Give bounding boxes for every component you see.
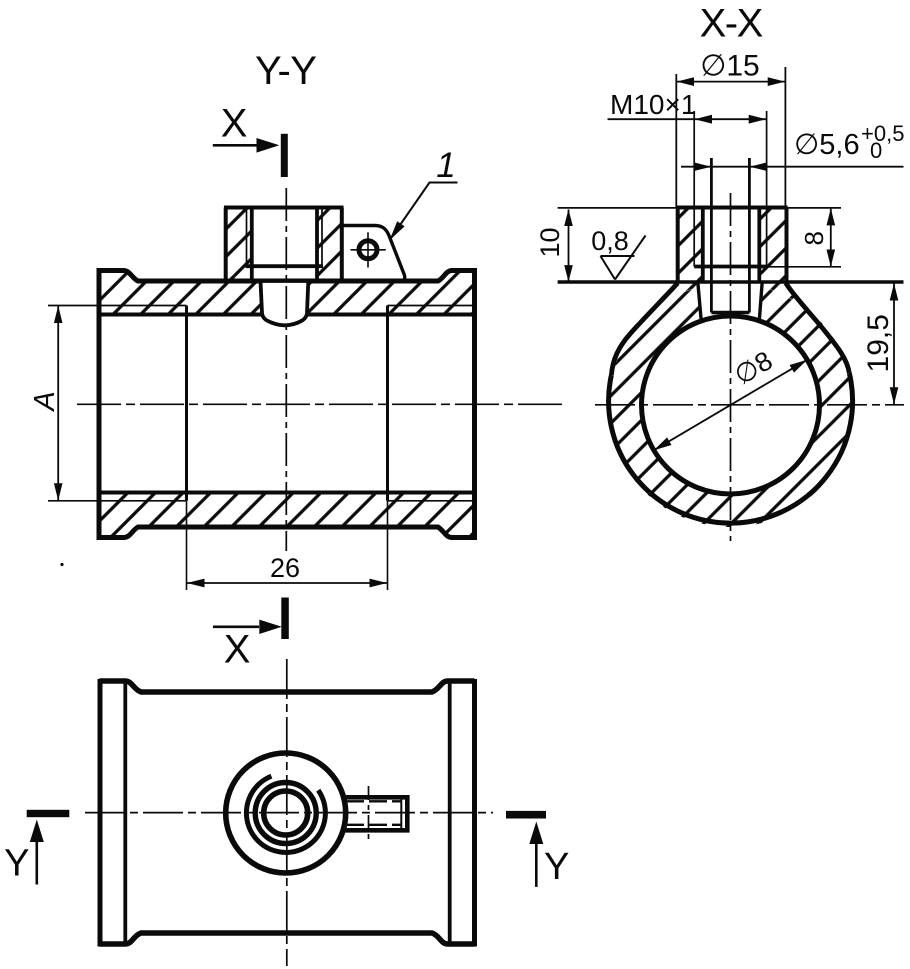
svg-text:X-X: X-X <box>700 1 763 45</box>
hatch: X-X neck right <box>731 282 850 373</box>
svg-text:1: 1 <box>436 146 455 185</box>
thread major top right <box>388 305 473 307</box>
hatch: X-X neck left <box>611 282 730 375</box>
svg-text:0: 0 <box>870 138 882 163</box>
boss top thin extensions <box>558 207 841 209</box>
top profile <box>100 681 475 692</box>
lug stub axis vertical <box>368 786 370 844</box>
dimension A arrows <box>54 306 63 501</box>
dim Ø8 diagonal line <box>654 360 808 451</box>
thread major bottom left <box>48 500 187 502</box>
ring circle <box>255 783 316 844</box>
dim M10x1 line <box>608 118 767 120</box>
left face <box>98 679 103 947</box>
center line horizontal X-X <box>595 404 904 406</box>
dim 10 arrows <box>564 209 573 281</box>
body outer profile <box>99 271 475 538</box>
boss thread major left <box>246 209 248 266</box>
white spigot region overpaint <box>698 282 763 321</box>
cap inner line right <box>448 681 452 944</box>
center line horizontal Y-Y <box>77 403 565 405</box>
svg-text:Y-Y: Y-Y <box>255 49 317 93</box>
hatch: X-X boss left wall <box>678 208 703 283</box>
dim 19,5 arrows <box>890 283 899 404</box>
thread bottom thin extension right <box>767 266 841 268</box>
svg-text:X: X <box>221 101 247 145</box>
lug stub outline <box>344 797 407 830</box>
svg-text:10: 10 <box>535 227 565 257</box>
thread arc (3/4) <box>246 776 325 852</box>
lug hole crosshair <box>351 232 386 267</box>
boss top line <box>676 206 788 210</box>
section arrow X top <box>281 134 288 177</box>
spigot protruding into bore <box>261 281 309 325</box>
dimension 26 line <box>187 582 388 584</box>
spigot side right (X-X) <box>759 282 762 321</box>
boss left wall line <box>224 208 228 282</box>
center line vertical X-X <box>730 193 732 541</box>
spigot side left (X-X) <box>698 282 701 321</box>
dimension A line <box>57 306 59 501</box>
hatch: Y-Y boss left wall <box>226 208 252 282</box>
dim 10 line <box>568 210 570 283</box>
inner circle (bore) <box>642 316 820 494</box>
dimension 26 arrows <box>187 579 387 588</box>
boss thread minor left <box>250 209 254 281</box>
leader arrowhead <box>390 221 405 240</box>
svg-text:∅5,6: ∅5,6 <box>794 129 860 161</box>
bore circle <box>264 791 308 835</box>
bottom profile <box>100 933 475 944</box>
svg-text:Y: Y <box>544 846 569 888</box>
lug hole <box>359 241 377 259</box>
lug item 1 outline <box>342 226 405 282</box>
dim 19,5 line <box>893 283 895 405</box>
view arrow Y left <box>27 810 70 817</box>
bore line top <box>101 313 473 317</box>
hatch: X-X ring <box>609 283 853 527</box>
neck curve left <box>611 283 677 375</box>
svg-text:∅15: ∅15 <box>700 50 760 83</box>
svg-text:19,5: 19,5 <box>862 314 895 372</box>
svg-text:M10×1: M10×1 <box>610 89 696 120</box>
boss thread major right <box>321 209 323 266</box>
thread major verticals + dim extensions <box>694 111 766 267</box>
thread bottom line <box>694 265 766 269</box>
dim Ø15 line <box>676 67 785 208</box>
boss thread minor right <box>315 209 319 281</box>
hatch: Y-Y top wall <box>99 271 475 315</box>
boss thread bottom <box>246 264 324 268</box>
hole Ø5.6 verticals <box>711 158 749 313</box>
outer circle (arc, hidden at neck) <box>609 373 853 523</box>
right face <box>472 679 477 947</box>
svg-text:+0,5: +0,5 <box>861 121 904 146</box>
svg-text:Y: Y <box>4 843 29 885</box>
boss top line <box>224 206 344 210</box>
neck curve right <box>786 283 850 373</box>
thread end line left <box>185 306 188 501</box>
center line vertical <box>286 659 288 966</box>
dim Ø5,6 arrows <box>694 162 768 171</box>
svg-text:A: A <box>29 391 61 412</box>
dim Ø15 arrows <box>677 77 786 86</box>
boss outer left <box>676 208 680 283</box>
dim 8 arrows <box>827 208 836 267</box>
svg-text:X: X <box>224 628 250 672</box>
section arrow X bottom <box>281 598 289 640</box>
thread major top left <box>48 305 187 307</box>
thread major bottom right <box>388 500 473 502</box>
hole bottom line <box>711 311 749 314</box>
boss outer right <box>785 208 789 283</box>
dim M10x1 arrows <box>694 115 766 124</box>
view arrow Y right <box>506 811 546 819</box>
cap inner line left <box>123 681 127 944</box>
hatch: Y-Y boss right wall <box>317 208 342 282</box>
leader line for label 1 <box>390 183 457 240</box>
thread end line right <box>386 306 389 501</box>
ext line right down <box>387 501 389 590</box>
boss outer circle <box>226 753 346 873</box>
roughness symbol 0,8 <box>601 236 646 280</box>
ext line left down <box>186 501 188 590</box>
dim Ø5,6 line <box>681 166 904 168</box>
svg-text:8: 8 <box>799 231 829 245</box>
svg-text:0,8: 0,8 <box>591 226 629 256</box>
dim Ø8 arrows <box>654 360 808 451</box>
flange top line <box>558 280 904 283</box>
speckle dot <box>60 563 63 566</box>
center line vertical Y-Y <box>285 188 287 551</box>
thread minor verticals <box>703 209 760 283</box>
svg-text:26: 26 <box>270 553 300 583</box>
center line horizontal <box>85 812 493 814</box>
boss right wall line <box>340 208 344 282</box>
hatch: Y-Y bottom wall <box>99 493 475 538</box>
bore line bottom <box>101 491 473 495</box>
lug stub inner vertical <box>400 800 402 829</box>
lug stub hidden hole lines <box>346 801 402 825</box>
hatch: X-X boss right wall <box>759 208 786 283</box>
dim 8 line <box>830 209 832 267</box>
